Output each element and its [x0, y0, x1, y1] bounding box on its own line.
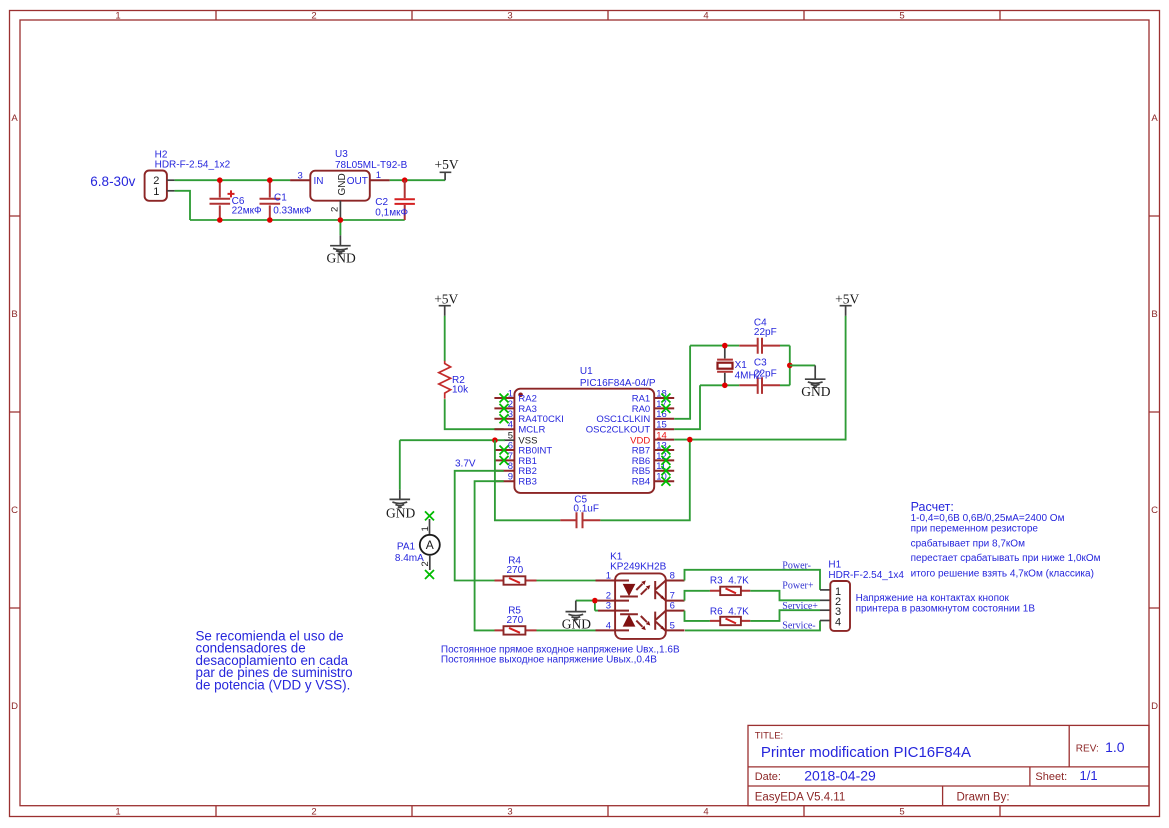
svg-text:RA0: RA0	[632, 404, 650, 415]
svg-text:PA1: PA1	[397, 541, 416, 552]
wire R5 to K1.4	[537, 629, 596, 631]
svg-text:GND: GND	[801, 384, 830, 399]
capacitor C4 leads	[739, 345, 780, 347]
junction H2.2/C6	[217, 177, 223, 183]
K1 pin leads left	[596, 581, 616, 631]
svg-text:OSC1CLKIN: OSC1CLKIN	[596, 414, 650, 425]
svg-text:4MHZ: 4MHZ	[735, 370, 762, 381]
capacitor C5 lead left	[560, 519, 576, 521]
junction C1 top	[267, 177, 273, 183]
svg-text:RB1: RB1	[518, 456, 536, 467]
svg-text:3: 3	[507, 807, 512, 818]
svg-text:принтера в разомкнутом состоян: принтера в разомкнутом состоянии 1В	[856, 604, 1036, 615]
H1 pin 1 lead	[820, 589, 830, 591]
svg-text:A: A	[426, 538, 434, 552]
U1 left pin names	[518, 393, 563, 487]
K1 pin leads right	[666, 581, 685, 631]
U3 pin 1 lead	[370, 179, 390, 181]
resistor R3 body	[720, 587, 741, 595]
R4 slash	[509, 578, 520, 583]
H1 pin 4 lead	[820, 620, 830, 622]
svg-text:IN: IN	[314, 176, 324, 187]
svg-text:15: 15	[656, 420, 667, 431]
no-connect X pin3	[500, 414, 509, 423]
svg-text:1: 1	[153, 186, 159, 198]
svg-text:6: 6	[670, 601, 675, 612]
svg-text:REV:: REV:	[1076, 744, 1099, 755]
wire VDD pin14 to +5V right	[674, 316, 845, 440]
U1 pin 5 lead (VSS, black)	[504, 439, 514, 441]
wire RB2 to R4	[455, 471, 504, 581]
svg-text:RB0INT: RB0INT	[518, 445, 552, 456]
capacitor C2 lead top	[404, 180, 406, 198]
ammeter PA1	[420, 511, 440, 579]
U1 left pin leads 1-4,6-9	[494, 398, 514, 481]
junction K1.2	[592, 598, 598, 604]
svg-text:2: 2	[311, 11, 316, 22]
svg-text:Printer modification PIC16F84A: Printer modification PIC16F84A	[761, 744, 971, 761]
svg-text:RB2: RB2	[518, 466, 536, 477]
svg-text:Date:: Date:	[755, 771, 781, 783]
R3 slash	[726, 588, 737, 593]
H1 pin 2 lead	[820, 599, 830, 601]
connector H2	[145, 171, 167, 201]
resistor R4 body	[504, 576, 526, 584]
svg-text:270: 270	[507, 565, 524, 576]
K1 phototransistor top	[655, 581, 665, 601]
svg-text:4: 4	[606, 620, 611, 631]
R5 slash	[509, 628, 520, 633]
no-connect X pin18	[661, 394, 670, 403]
annotation printer buttons note	[856, 593, 1036, 614]
svg-text:Service+: Service+	[782, 601, 818, 612]
C6 polarity plus sign	[228, 190, 235, 197]
svg-text:RB6: RB6	[632, 456, 650, 467]
svg-text:Постоянное выходное напряжение: Постоянное выходное напряжение Uвых.,0.4…	[441, 655, 657, 666]
U1 pin1 indicator dot	[518, 393, 523, 398]
svg-text:TITLE:: TITLE:	[755, 731, 784, 742]
svg-text:5: 5	[670, 620, 675, 631]
svg-text:OSC2CLKOUT: OSC2CLKOUT	[586, 425, 651, 436]
no-connect X pin10	[661, 477, 670, 486]
svg-text:5: 5	[899, 807, 904, 818]
svg-text:VDD: VDD	[630, 436, 650, 447]
wire R6 to H1.3 (Service+)	[750, 610, 820, 621]
svg-text:0.33мкФ: 0.33мкФ	[273, 205, 312, 216]
svg-text:+5V: +5V	[435, 157, 459, 172]
wire H2.2 to U3 IN	[175, 179, 291, 181]
wire +5V to R2	[444, 316, 446, 361]
junction VSS/C5 branch	[492, 437, 498, 443]
wire K1.5 to H1.4 (Service-)	[685, 621, 820, 631]
capacitor C5 plates	[577, 512, 583, 528]
wire right vertical C4/C3	[789, 346, 791, 386]
annotation Spanish note	[196, 629, 353, 693]
wire crystal top rail	[690, 345, 790, 347]
svg-text:RA3: RA3	[518, 404, 536, 415]
svg-text:2: 2	[330, 207, 341, 212]
wire Power- net	[685, 570, 821, 590]
wire OSC2CLKOUT up	[674, 385, 700, 429]
svg-text:1: 1	[376, 170, 381, 181]
capacitor C6 lead top	[219, 180, 221, 197]
svg-text:RB3: RB3	[518, 477, 536, 488]
svg-text:OUT: OUT	[347, 176, 368, 187]
resistor R2 10k	[439, 361, 451, 399]
svg-text:VSS: VSS	[518, 436, 537, 447]
svg-text:3: 3	[606, 601, 611, 612]
junction crystal top	[722, 343, 728, 349]
wire K1.7 to R3	[685, 591, 710, 601]
svg-text:1: 1	[606, 570, 611, 581]
svg-text:GND: GND	[337, 173, 348, 195]
svg-text:D: D	[1151, 701, 1158, 712]
svg-text:78L05ML-T92-B: 78L05ML-T92-B	[335, 160, 408, 171]
capacitor C6 plates	[210, 199, 231, 204]
resistor R4 leads	[495, 580, 537, 582]
svg-text:RB4: RB4	[632, 477, 650, 488]
svg-text:A: A	[1151, 113, 1158, 124]
wire C5 left branch	[495, 440, 560, 520]
capacitor C1 plates	[260, 199, 281, 204]
svg-text:C1: C1	[274, 193, 287, 204]
svg-text:5: 5	[899, 11, 904, 22]
svg-text:4: 4	[508, 420, 513, 431]
junction C4/C3 right	[787, 363, 793, 369]
svg-text:C3: C3	[754, 358, 767, 369]
U1 right pin leads 18-10	[654, 398, 674, 481]
wire RB3 to R5	[475, 481, 504, 630]
svg-text:HDR-F-2.54_1x2: HDR-F-2.54_1x2	[155, 159, 231, 170]
junction crystal bottom	[722, 383, 728, 389]
ground symbol GND1 (below U3)	[327, 220, 356, 266]
svg-text:3: 3	[507, 11, 512, 22]
U1 left pin numbers	[508, 388, 513, 482]
ground symbol GND4 (at K1)	[562, 601, 591, 632]
U1 right pin numbers	[656, 388, 667, 482]
svg-text:de potencia (VDD y VSS).: de potencia (VDD y VSS).	[196, 677, 351, 692]
U3 pin 2 lead (GND)	[339, 201, 341, 220]
capacitor C4 plates	[758, 338, 762, 354]
resistor R6 body	[720, 617, 741, 625]
capacitor C5 lead right	[583, 519, 601, 521]
junction C1 bottom	[267, 217, 273, 223]
svg-text:22pF: 22pF	[754, 327, 777, 338]
no-connect X pin1	[500, 394, 509, 403]
svg-text:GND: GND	[562, 616, 591, 631]
power flag +5V (right)	[835, 292, 859, 316]
R6 slash	[726, 619, 737, 624]
wire K1.6 to R6	[685, 611, 710, 621]
power flag +5V (left, above R2)	[434, 292, 458, 316]
wire R4 to K1.1	[537, 580, 596, 582]
no-connect X pin11	[661, 466, 670, 475]
svg-text:2018-04-29: 2018-04-29	[804, 767, 876, 783]
svg-text:1.0: 1.0	[1105, 739, 1125, 755]
svg-text:Drawn By:: Drawn By:	[957, 792, 1010, 804]
wire R3 to H1.2 (Power+)	[750, 591, 820, 601]
no-connect X pin2	[500, 404, 509, 413]
svg-text:270: 270	[507, 615, 524, 626]
svg-text:16: 16	[656, 409, 667, 420]
wire OSC1CLKIN up	[674, 346, 690, 419]
resistor R5 body	[504, 626, 526, 634]
wire to GND3	[790, 364, 815, 366]
resistor R3 leads	[710, 590, 750, 592]
junction C6/rail	[217, 217, 223, 223]
svg-text:U1: U1	[580, 366, 593, 377]
svg-text:2: 2	[311, 807, 316, 818]
wire ground rail	[190, 219, 405, 221]
resistor R6 leads	[710, 620, 750, 622]
svg-text:GND: GND	[327, 251, 356, 266]
annotation optocoupler voltages	[441, 645, 680, 666]
H2 pin 1 lead	[167, 190, 175, 192]
svg-text:B: B	[1151, 309, 1157, 320]
power flag +5V (top)	[435, 157, 459, 180]
svg-text:MCLR: MCLR	[518, 425, 545, 436]
svg-text:итого решение взять 4,7кОм (кл: итого решение взять 4,7кОм (классика)	[911, 568, 1094, 579]
no-connect X pin12	[661, 456, 670, 465]
svg-text:срабатывает при 8,7кОм: срабатывает при 8,7кОм	[911, 537, 1025, 549]
svg-text:10k: 10k	[452, 384, 469, 395]
svg-text:Power+: Power+	[782, 580, 814, 591]
wire K1.2/K1.3 to GND	[576, 601, 598, 611]
optocoupler K1 body	[615, 573, 666, 639]
svg-text:0,1мкФ: 0,1мкФ	[375, 207, 408, 218]
IC U1 body	[514, 389, 654, 493]
svg-text:PIC16F84A-04/P: PIC16F84A-04/P	[580, 378, 656, 389]
capacitor C6 lead bottom	[219, 205, 221, 220]
svg-text:3.7V: 3.7V	[455, 458, 476, 469]
junction C2 top	[402, 177, 408, 183]
svg-text:4: 4	[703, 807, 708, 818]
wire VSS to left	[400, 439, 505, 441]
svg-text:22мкФ: 22мкФ	[232, 205, 262, 216]
svg-text:+5V: +5V	[434, 292, 458, 307]
svg-text:3: 3	[298, 171, 303, 182]
H2 pin 2 lead	[167, 179, 175, 181]
svg-text:9: 9	[508, 472, 513, 483]
svg-text:Service-: Service-	[782, 621, 815, 632]
svg-text:5: 5	[508, 431, 513, 442]
svg-text:Power-: Power-	[782, 561, 811, 572]
svg-text:Sheet:: Sheet:	[1035, 771, 1067, 783]
svg-text:0.1uF: 0.1uF	[573, 504, 599, 515]
junction U3.GND rail	[338, 217, 344, 223]
svg-text:GND: GND	[386, 505, 415, 520]
svg-text:KP249KH2B: KP249KH2B	[610, 561, 666, 572]
ground symbol GND3 (right of crystal)	[801, 365, 830, 399]
ground symbol GND2 (left of U1)	[386, 440, 415, 520]
capacitor C1 lead bottom	[269, 205, 271, 220]
resistor R5 leads	[495, 629, 537, 631]
svg-text:RA2: RA2	[518, 393, 536, 404]
svg-text:EasyEDA V5.4.11: EasyEDA V5.4.11	[755, 792, 846, 804]
capacitor C2 plates	[395, 199, 415, 204]
wire U3.OUT to +5V	[390, 179, 445, 181]
svg-text:1: 1	[420, 526, 431, 531]
svg-text:при переменном резисторе: при переменном резисторе	[911, 524, 1039, 535]
svg-text:RA4T0CKI: RA4T0CKI	[518, 414, 563, 425]
svg-text:4: 4	[703, 11, 708, 22]
svg-text:1: 1	[115, 807, 120, 818]
svg-text:4: 4	[835, 616, 841, 628]
capacitor C1 lead top	[269, 180, 271, 197]
svg-text:R6 4.7K: R6 4.7K	[710, 607, 749, 618]
op U3 body	[310, 171, 370, 201]
svg-text:+5V: +5V	[835, 292, 859, 307]
svg-text:14: 14	[656, 431, 667, 442]
K1 phototransistor bottom	[655, 611, 665, 631]
wire H2.1 to ground rail	[175, 191, 190, 220]
svg-text:6.8-30v: 6.8-30v	[90, 174, 135, 189]
H1 pin numbers	[835, 586, 841, 629]
junction VDD/C5	[687, 437, 693, 443]
no-connect X pin6	[500, 446, 509, 455]
svg-text:1: 1	[115, 11, 120, 22]
svg-text:U3: U3	[335, 149, 348, 160]
wire C5 right branch to VDD	[600, 440, 689, 521]
svg-text:RB5: RB5	[632, 466, 650, 477]
svg-text:RB7: RB7	[632, 445, 650, 456]
K1 pin numbers left	[606, 570, 611, 631]
K1 pin numbers right	[670, 570, 675, 631]
TITLE BLOCK	[748, 725, 1149, 805]
crystal X1	[717, 346, 733, 386]
no-connect X pin13	[661, 446, 670, 455]
svg-text:C: C	[11, 505, 18, 516]
K1 LED top	[615, 581, 650, 601]
capacitor C2 lead bottom	[404, 205, 406, 220]
svg-text:8: 8	[508, 461, 513, 472]
svg-text:1/1: 1/1	[1080, 768, 1098, 783]
svg-text:1-0,4=0,6В 0,6В/0,25мА=2400 Ом: 1-0,4=0,6В 0,6В/0,25мА=2400 Ом	[911, 513, 1065, 524]
svg-text:HDR-F-2.54_1x4: HDR-F-2.54_1x4	[828, 570, 904, 581]
annotation Расчет block	[911, 500, 1101, 579]
svg-text:A: A	[11, 113, 18, 124]
svg-text:перестает срабатывать при ниже: перестает срабатывать при ниже 1,0кОм	[911, 552, 1101, 564]
svg-text:D: D	[11, 701, 18, 712]
regulator U3 pin 3 lead	[290, 179, 310, 181]
connector H1 body	[830, 581, 850, 631]
wire crystal bottom rail	[700, 384, 790, 386]
wire R2 to U1.MCLR	[445, 399, 504, 429]
K1 LED bottom	[615, 611, 650, 631]
capacitor C3 leads	[739, 384, 780, 386]
capacitor C3 plates	[758, 377, 762, 394]
no-connect X pin17	[661, 404, 670, 413]
svg-text:8.4mA: 8.4mA	[395, 553, 424, 564]
svg-text:RA1: RA1	[632, 393, 650, 404]
H1 pin 3 lead	[820, 609, 830, 611]
no-connect X pin7	[500, 456, 509, 465]
svg-text:B: B	[11, 309, 17, 320]
U1 right pin names	[586, 393, 651, 487]
svg-text:C2: C2	[375, 197, 388, 208]
svg-text:R3 4.7K: R3 4.7K	[710, 576, 749, 587]
svg-text:8: 8	[670, 570, 675, 581]
svg-text:C: C	[1151, 505, 1158, 516]
